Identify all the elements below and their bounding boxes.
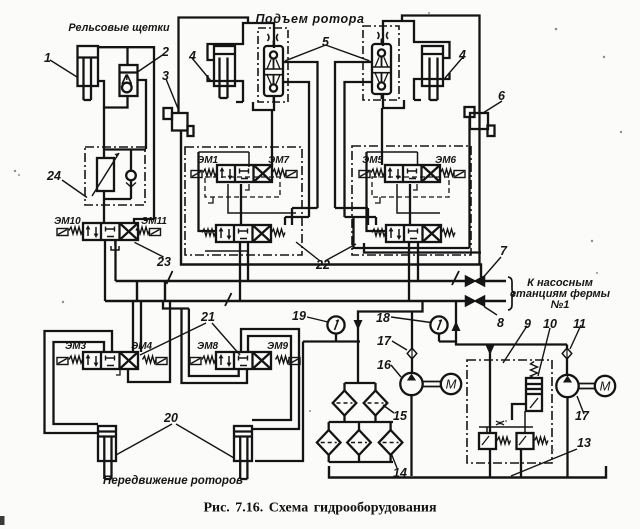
- svg-text:8: 8: [497, 316, 504, 330]
- svg-text:ЭМ6: ЭМ6: [435, 155, 457, 166]
- svg-text:Подъем ротора: Подъем ротора: [255, 12, 364, 26]
- svg-text:Передвижение роторов: Передвижение роторов: [103, 475, 243, 487]
- svg-text:11: 11: [573, 317, 586, 331]
- svg-text:4: 4: [458, 48, 466, 62]
- svg-text:5: 5: [322, 35, 330, 49]
- svg-text:9: 9: [524, 317, 531, 331]
- svg-text:17: 17: [377, 334, 392, 348]
- svg-text:ЭМ1: ЭМ1: [197, 155, 219, 166]
- svg-text:13: 13: [577, 436, 591, 450]
- svg-text:19: 19: [292, 309, 306, 323]
- svg-text:23: 23: [156, 255, 171, 269]
- svg-text:16: 16: [377, 358, 392, 372]
- svg-text:ЭМ10: ЭМ10: [54, 216, 81, 227]
- svg-text:24: 24: [46, 169, 61, 183]
- svg-text:18: 18: [376, 311, 390, 325]
- svg-text:17: 17: [575, 409, 590, 423]
- svg-text:3: 3: [162, 69, 169, 83]
- svg-text:6: 6: [498, 89, 506, 103]
- svg-text:22: 22: [315, 258, 330, 272]
- svg-text:ЭМ3: ЭМ3: [65, 341, 87, 352]
- svg-text:ЭМ4: ЭМ4: [131, 341, 153, 352]
- svg-text:ЭМ9: ЭМ9: [267, 341, 289, 352]
- svg-text:2: 2: [161, 45, 169, 59]
- svg-text:4: 4: [188, 49, 196, 63]
- svg-text:14: 14: [393, 466, 407, 480]
- svg-text:ЭМ5: ЭМ5: [362, 155, 384, 166]
- svg-text:ЭМ7: ЭМ7: [268, 155, 290, 166]
- svg-text:7: 7: [500, 244, 508, 258]
- svg-text:Рельсовые щетки: Рельсовые щетки: [68, 22, 170, 34]
- svg-text:15: 15: [393, 409, 408, 423]
- svg-text:20: 20: [163, 411, 178, 425]
- svg-text:10: 10: [543, 317, 557, 331]
- svg-text:№1: №1: [551, 299, 570, 311]
- svg-text:1: 1: [44, 51, 51, 65]
- svg-text:ЭМ11: ЭМ11: [141, 216, 167, 227]
- svg-text:ЭМ8: ЭМ8: [197, 341, 219, 352]
- svg-text:Рис. 7.16. Схема гидрооборудов: Рис. 7.16. Схема гидрооборудования: [203, 501, 437, 516]
- svg-text:21: 21: [200, 310, 215, 324]
